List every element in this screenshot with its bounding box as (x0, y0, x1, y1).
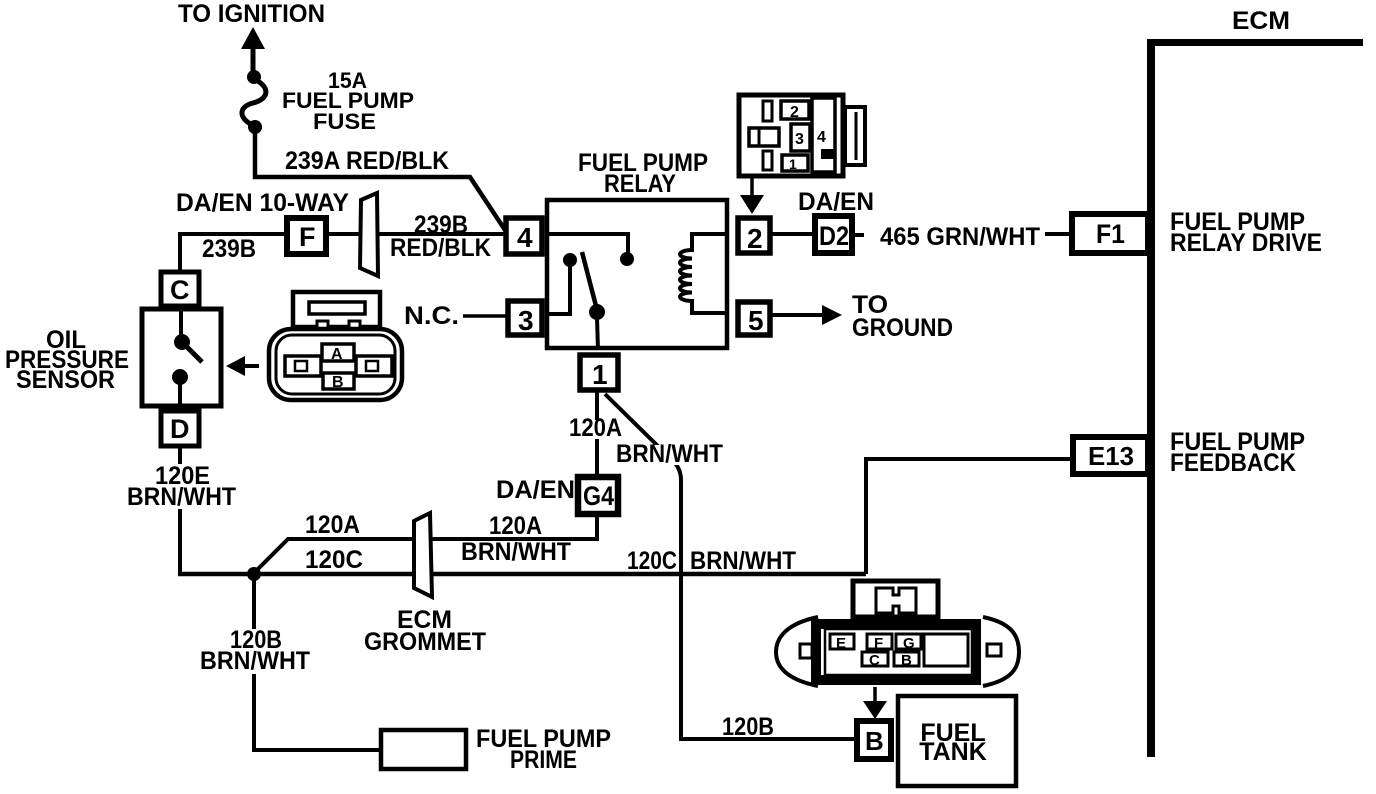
svg-text:DA/EN: DA/EN (496, 476, 575, 504)
svg-text:BRN/WHT: BRN/WHT (200, 647, 310, 675)
svg-text:E: E (836, 635, 846, 652)
relay pin 2 (738, 218, 770, 253)
svg-text:120C: 120C (305, 546, 363, 574)
relay pin 1 (580, 355, 618, 390)
fuel tank connector cavity G (896, 634, 921, 649)
switch inside oil pressure sensor (179, 309, 183, 336)
svg-text:D: D (170, 414, 190, 444)
relay pin 3 (508, 301, 542, 335)
wire label 120B BRN/WHT (198, 629, 314, 674)
svg-text:PRIME: PRIME (510, 746, 577, 774)
svg-text:DA/EN: DA/EN (798, 188, 874, 216)
svg-text:D2: D2 (819, 221, 849, 251)
relay pin 4 (506, 218, 542, 254)
svg-text:4: 4 (517, 222, 533, 253)
wire pin 5 to ground (772, 313, 824, 317)
svg-text:2: 2 (790, 104, 799, 121)
arrow from connector to relay pin 2 (750, 178, 754, 199)
svg-text:120B: 120B (722, 713, 774, 741)
wire 239A RED/BLK from fuse to relay pin 4 (255, 127, 505, 230)
wire pin 2 to D2 (770, 232, 815, 236)
svg-text:B: B (332, 374, 344, 391)
ECM boundary vertical bar (1147, 39, 1155, 757)
arrow to ignition (241, 27, 265, 49)
relay pin 5 (738, 302, 770, 335)
svg-text:3: 3 (795, 131, 804, 148)
fuel tank connector cavity C (862, 652, 888, 666)
svg-text:BRN/WHT: BRN/WHT (690, 547, 796, 575)
relay coil (680, 234, 725, 313)
splice junction dot (247, 567, 261, 581)
fuse 15A FUEL PUMP FUSE (squiggle symbol) (247, 70, 261, 84)
relay internal wire from pin 4 (549, 234, 628, 253)
fuel tank connector tab H-shape (876, 588, 916, 613)
svg-text:120A: 120A (489, 512, 542, 540)
svg-text:C: C (170, 275, 190, 305)
fuel tank connector body (816, 624, 976, 680)
svg-text:2: 2 (747, 223, 763, 254)
svg-text:DA/EN 10-WAY: DA/EN 10-WAY (176, 189, 349, 217)
svg-text:G4: G4 (583, 481, 614, 511)
relay connector cavity 2 (781, 101, 809, 119)
wire 239B RED/BLK from F to relay pin 4 (326, 232, 505, 236)
wire 120C to E13 (866, 459, 1073, 574)
terminal D of oil pressure sensor (161, 411, 199, 446)
relay connector bottom cavity (782, 155, 808, 171)
fuel tank connector left end cap (776, 617, 818, 686)
svg-text:SENSOR: SENSOR (16, 366, 115, 394)
svg-text:120C: 120C (627, 547, 677, 575)
svg-text:FUSE: FUSE (313, 109, 376, 134)
svg-text:TANK: TANK (919, 738, 987, 766)
wire label 120E BRN/WHT (125, 464, 239, 509)
wire 120A horizontal run (254, 539, 597, 573)
wire 120A from relay pin 1 to G4 (595, 390, 599, 477)
relay connector left slots (763, 101, 772, 121)
fuel tank connector right tab (987, 644, 1001, 656)
ECM boundary top bar (1150, 39, 1363, 46)
terminal C of oil pressure sensor (161, 272, 199, 306)
arrow from connector to terminal B (873, 687, 877, 706)
oil pressure sensor body (142, 309, 221, 406)
wire 120E BRN/WHT from D down to splice (178, 446, 182, 576)
svg-text:239A RED/BLK: 239A RED/BLK (285, 147, 449, 175)
svg-text:BRN/WHT: BRN/WHT (461, 538, 571, 566)
svg-text:1: 1 (592, 359, 608, 390)
svg-text:GROMMET: GROMMET (364, 628, 486, 656)
sensor connector left cavity (285, 356, 321, 376)
relay movable arm (582, 252, 596, 306)
connector pin F (287, 218, 326, 254)
svg-text:F1: F1 (1096, 219, 1125, 249)
wire G4 down to 120A run (595, 514, 599, 541)
relay K1 fuel pump relay body (547, 200, 727, 348)
svg-text:239B: 239B (202, 235, 256, 263)
wire 120A BRN/WHT from pin 1 to fuel tank (605, 394, 857, 739)
svg-text:120A: 120A (305, 511, 360, 539)
relay connector cavity 4 column (812, 98, 835, 172)
wire 465 GRN/WHT into F1 (1045, 232, 1069, 236)
svg-text:1: 1 (789, 156, 797, 172)
sensor connector face view: top tab (293, 292, 380, 327)
svg-text:F: F (299, 222, 316, 252)
sensor connector cavity B (323, 373, 354, 389)
svg-text:G: G (903, 635, 915, 652)
svg-text:E13: E13 (1088, 441, 1134, 471)
relay common contact post (563, 253, 577, 267)
sensor connector cavity A (322, 344, 354, 361)
svg-text:4: 4 (817, 129, 826, 146)
relay connector cavity 3 (791, 124, 810, 151)
fuel tank connector right end cap (983, 617, 1019, 686)
relay connector right latch (845, 107, 865, 165)
svg-text:RED/BLK: RED/BLK (390, 234, 491, 262)
wire 120B down to fuel pump prime (254, 574, 381, 750)
wire label 120A BRN/WHT (pin 1) (567, 420, 627, 439)
relay fixed contact (pin 4 side) (620, 252, 634, 266)
svg-text:465 GRN/WHT: 465 GRN/WHT (880, 223, 1040, 251)
svg-text:120A: 120A (569, 414, 622, 442)
arrow pointing at sensor (226, 356, 245, 376)
svg-text:A: A (331, 346, 343, 363)
svg-text:N.C.: N.C. (404, 302, 459, 330)
wire 239B from sensor C up to connector F (180, 234, 284, 270)
ECM grommet symbol (414, 513, 432, 597)
fuel tank connector left tab (800, 644, 812, 658)
connector pin E13 (1073, 437, 1148, 474)
svg-text:RELAY DRIVE: RELAY DRIVE (1170, 229, 1322, 257)
fuel tank connector cavity B (894, 652, 919, 666)
svg-text:B: B (901, 652, 912, 669)
connector pin D2 (815, 216, 852, 253)
fuel tank connector: top pull tab (853, 581, 938, 617)
connector pin F1 (1072, 214, 1148, 253)
svg-text:F: F (874, 635, 883, 652)
svg-text:ECM: ECM (1232, 7, 1290, 35)
svg-text:BRN/WHT: BRN/WHT (616, 440, 723, 468)
sensor connector right cavity (356, 356, 392, 376)
relay connector face view: outer shell (739, 95, 843, 176)
sensor connector small stubs (317, 321, 328, 331)
fuel tank box (898, 696, 1016, 786)
svg-text:3: 3 (518, 305, 534, 336)
fuel pump prime connector box (381, 730, 466, 769)
svg-text:GROUND: GROUND (852, 314, 953, 342)
svg-text:C: C (869, 652, 880, 669)
connector pin G4 (578, 477, 618, 514)
wire 120C horizontal run (178, 572, 866, 577)
svg-text:5: 5 (748, 305, 764, 336)
svg-text:RELAY: RELAY (604, 170, 676, 198)
sensor connector body (oval) (269, 329, 402, 400)
svg-text:FEEDBACK: FEEDBACK (1170, 449, 1296, 477)
svg-text:TO IGNITION: TO IGNITION (178, 0, 325, 28)
svg-text:BRN/WHT: BRN/WHT (127, 483, 236, 511)
grommet (firewall) symbol (360, 193, 378, 276)
fuel tank connector right empty cavity (924, 634, 968, 666)
fuel tank connector cavity F (867, 634, 892, 649)
relay connector middle-left cavity (749, 128, 779, 146)
svg-text:B: B (865, 726, 884, 756)
fuel tank connector cavity E (830, 634, 854, 649)
terminal B of fuel tank (857, 721, 891, 759)
